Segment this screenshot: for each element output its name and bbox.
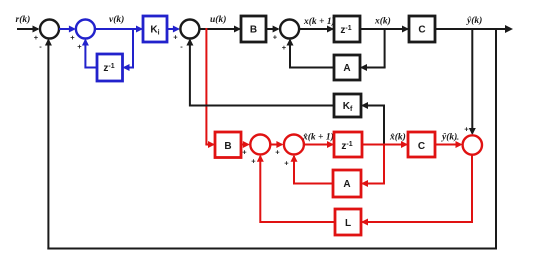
summing junction S3 bbox=[180, 20, 199, 39]
svg-text:x(k): x(k) bbox=[374, 16, 391, 27]
wire R2 to red z-1 bbox=[304, 141, 334, 148]
summing junction S1 bbox=[40, 20, 59, 39]
wire red z-1 to red C bbox=[362, 141, 408, 148]
svg-text:+: + bbox=[34, 33, 39, 42]
summing junction error sum bbox=[463, 135, 482, 154]
wire u(k) drop to red B bbox=[205, 28, 215, 148]
wire junction drop to z-1 blue bbox=[123, 28, 135, 71]
wire Ki to S3 bbox=[167, 26, 180, 33]
wire A to S4 bottom bbox=[287, 39, 335, 69]
svg-text:+: + bbox=[77, 42, 82, 51]
gain block B plant bbox=[241, 16, 266, 42]
delay block z-1 blue bbox=[97, 54, 123, 81]
svg-text:ŷ(k): ŷ(k) bbox=[441, 132, 457, 143]
gain block Kf feedback bbox=[334, 94, 361, 117]
gain block B observer bbox=[215, 132, 241, 158]
svg-text:A: A bbox=[343, 179, 350, 190]
svg-text:x̂(k): x̂(k) bbox=[389, 132, 406, 143]
summing junction R2 observer bbox=[284, 135, 304, 155]
gain block A plant bbox=[334, 55, 360, 80]
delay block z-1 observer bbox=[334, 132, 362, 157]
wire S1 to S2 bbox=[59, 26, 76, 33]
svg-text:v(k): v(k) bbox=[109, 14, 124, 25]
svg-text:C: C bbox=[418, 141, 425, 152]
wire xhat up to Kf bbox=[361, 102, 385, 145]
svg-text:+: + bbox=[282, 43, 287, 52]
svg-text:+: + bbox=[251, 157, 256, 166]
wire error sum to L bbox=[361, 155, 473, 226]
wire xhat drop to red A bbox=[361, 144, 385, 188]
wire R1 to R2 bbox=[270, 141, 283, 148]
svg-text:B: B bbox=[250, 25, 257, 36]
svg-text:x̂(k + 1): x̂(k + 1) bbox=[302, 132, 334, 143]
svg-text:+: + bbox=[273, 33, 278, 42]
gain block Ki bbox=[143, 16, 167, 42]
svg-text:+: + bbox=[284, 159, 289, 168]
wire r(k) input bbox=[17, 26, 40, 33]
wire S3 to B with u(k) junction bbox=[199, 26, 241, 33]
svg-text:ŷ(k): ŷ(k) bbox=[466, 15, 482, 26]
gain block C plant bbox=[409, 16, 435, 42]
wire C to output bbox=[435, 25, 513, 33]
svg-text:+: + bbox=[242, 148, 247, 157]
wire red A to R2 bottom bbox=[291, 155, 334, 185]
gain block A observer bbox=[333, 170, 361, 197]
svg-text:+: + bbox=[70, 33, 75, 42]
svg-text:r(k): r(k) bbox=[16, 14, 31, 25]
svg-text:+: + bbox=[275, 148, 280, 157]
gain block L observer bbox=[335, 209, 361, 235]
svg-text:x(k + 1): x(k + 1) bbox=[303, 16, 335, 27]
gain block C observer bbox=[408, 132, 435, 157]
wire z-1 to C with x(k) junction bbox=[360, 26, 409, 33]
wire S2 to Ki with junction bbox=[95, 26, 143, 33]
wire y drop to error sum bbox=[469, 28, 476, 135]
wire outer feedback loop bbox=[45, 28, 497, 250]
svg-text:L: L bbox=[345, 218, 351, 229]
svg-text:C: C bbox=[418, 25, 425, 36]
wire z-1 blue to S2 bottom bbox=[82, 39, 97, 69]
summing junction R1 observer bbox=[250, 135, 270, 155]
wire Kf to S3 bottom bbox=[186, 39, 334, 107]
svg-text:+: + bbox=[464, 125, 469, 134]
summing junction S2 bbox=[76, 20, 95, 39]
wire red C to error sum bbox=[435, 141, 463, 148]
wire red B to R1 bbox=[241, 141, 250, 148]
delay block z-1 plant bbox=[334, 16, 360, 42]
wire B to S4 bbox=[266, 26, 280, 33]
svg-text:A: A bbox=[343, 63, 350, 74]
svg-text:B: B bbox=[224, 141, 231, 152]
svg-text:u(k): u(k) bbox=[210, 14, 226, 25]
wire S4 to z-1 with x(k+1) label bbox=[299, 26, 334, 33]
svg-text:+: + bbox=[173, 33, 178, 42]
wire L to R1 bottom bbox=[257, 155, 335, 223]
wire x(k) drop to A bbox=[360, 28, 386, 71]
summing junction S4 bbox=[280, 20, 299, 39]
